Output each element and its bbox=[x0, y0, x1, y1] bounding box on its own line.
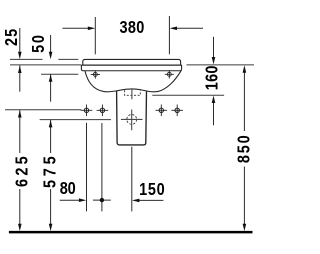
svg-text:625: 625 bbox=[13, 156, 31, 187]
svg-text:160: 160 bbox=[204, 65, 222, 90]
svg-text:150: 150 bbox=[139, 181, 165, 199]
svg-text:380: 380 bbox=[120, 19, 145, 37]
svg-text:575: 575 bbox=[41, 156, 59, 188]
svg-text:850: 850 bbox=[236, 135, 254, 163]
svg-text:80: 80 bbox=[60, 180, 76, 198]
svg-text:25: 25 bbox=[3, 29, 21, 46]
svg-text:50: 50 bbox=[30, 35, 48, 53]
